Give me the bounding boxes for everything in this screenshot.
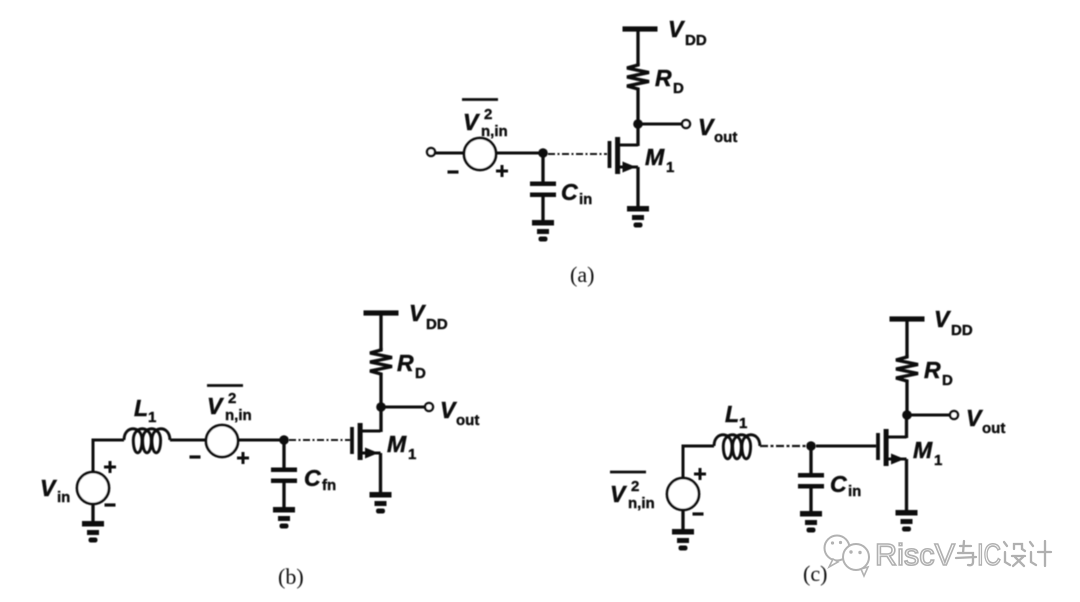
svg-text:C: C <box>830 471 847 497</box>
wire inductor to noise source (b) <box>170 439 207 442</box>
noise voltage source Vn,in^2 (c) <box>667 478 699 510</box>
terminal Vout (b) <box>425 403 433 411</box>
svg-text:DD: DD <box>685 32 707 49</box>
label RD (c) <box>924 357 953 389</box>
watermark glyph she <box>1004 542 1025 566</box>
wire node to Vout terminal (a) <box>641 123 681 126</box>
wire noise source to corner and inductor (c) <box>683 446 714 479</box>
label RD (b) <box>397 350 426 382</box>
wire VDD to resistor (b) <box>379 315 382 350</box>
caption (a) <box>570 262 594 287</box>
wire drain node to transistor (b) <box>379 407 382 432</box>
svg-text:out: out <box>456 412 479 429</box>
wire noise source to ground (c) <box>681 509 684 530</box>
wire Vin to ground (b) <box>91 503 94 522</box>
noise voltage source Vn,in^2 (a) <box>464 138 496 170</box>
svg-text:n,in: n,in <box>481 123 508 140</box>
wire Vin to corner and inductor (b) <box>93 440 124 473</box>
wire resistor to drain node (b) <box>379 375 382 407</box>
node drain (a) <box>633 119 643 129</box>
svg-text:L: L <box>134 395 148 421</box>
minus sign (a) <box>448 171 459 173</box>
ground at M1 source (b) <box>370 492 392 514</box>
label Vout (a) <box>698 114 737 146</box>
svg-text:2: 2 <box>484 106 492 123</box>
wire source to ground (a) <box>636 167 639 207</box>
ground at noise source (c) <box>672 529 694 551</box>
plus sign Vin (b) <box>104 461 116 473</box>
svg-text:1: 1 <box>934 452 942 469</box>
wire drain node to transistor (a) <box>636 124 639 146</box>
svg-text:V: V <box>207 393 224 419</box>
caption (c) <box>803 561 827 586</box>
wire resistor to drain node (a) <box>636 90 639 124</box>
ground at Cin (a) <box>532 220 554 242</box>
label Vin (b) <box>40 475 70 506</box>
terminal Vout (c) <box>950 411 958 419</box>
wire gate node to M1 gate (c) <box>816 445 876 448</box>
capacitor Cin (c) <box>798 473 824 489</box>
wire inductor to gate node (c) <box>760 445 806 447</box>
label L1 (b) <box>134 395 156 426</box>
watermark glyph ji <box>1030 541 1051 566</box>
svg-text:(b): (b) <box>278 564 304 589</box>
label Vout (b) <box>440 397 479 429</box>
wire gate node to capacitor (a) <box>541 153 544 182</box>
label M1 (b) <box>387 431 416 463</box>
plus sign (b) <box>237 452 249 464</box>
svg-text:M: M <box>387 431 407 457</box>
label M1 (a) <box>645 144 674 176</box>
svg-text:1: 1 <box>739 415 747 432</box>
svg-text:R: R <box>924 357 941 383</box>
label VDD (c) <box>934 306 973 339</box>
label VDD (b) <box>409 300 448 333</box>
svg-text:out: out <box>714 129 737 146</box>
inductor L1 (b) <box>124 429 170 453</box>
svg-text:2: 2 <box>631 478 639 495</box>
svg-text:M: M <box>913 437 933 463</box>
transistor M1 (a) <box>608 137 638 174</box>
svg-text:n,in: n,in <box>225 407 252 424</box>
ground at Cfn (b) <box>273 507 295 529</box>
label RD (a) <box>655 65 684 97</box>
label Cin (c) <box>830 471 861 500</box>
svg-text:V: V <box>610 481 627 507</box>
wire drain node to transistor (c) <box>905 415 908 438</box>
node gate (a) <box>538 148 548 158</box>
ground at Vin (b) <box>82 521 104 543</box>
label Vout (c) <box>966 405 1005 437</box>
resistor RD (a) <box>627 63 649 90</box>
plus sign (c) <box>694 468 706 480</box>
wire VDD to resistor (c) <box>905 321 908 356</box>
noise voltage source Vn,in^2 (b) <box>206 425 238 457</box>
source Vin (b) <box>77 472 109 504</box>
svg-text:out: out <box>982 420 1005 437</box>
capacitor Cfn (b) <box>271 468 297 484</box>
terminal Vout (a) <box>682 120 690 128</box>
svg-text:V: V <box>966 405 983 431</box>
svg-text:DD: DD <box>951 322 973 339</box>
wire node to Vout terminal (c) <box>910 414 950 417</box>
wire input terminal to noise source (a) <box>435 152 465 155</box>
label M1 (c) <box>913 437 942 469</box>
input terminal (a) <box>427 148 435 156</box>
label Vn,in^2 with overline (c) <box>610 472 655 512</box>
svg-text:fn: fn <box>322 477 336 494</box>
svg-text:V: V <box>934 306 951 332</box>
svg-text:M: M <box>645 144 665 170</box>
ground at M1 source (c) <box>896 510 918 532</box>
svg-text:RiscV: RiscV <box>875 537 955 572</box>
wire resistor to drain node (c) <box>905 382 908 415</box>
svg-text:in: in <box>848 483 861 500</box>
node drain (c) <box>902 410 912 420</box>
node drain (b) <box>376 402 386 412</box>
transistor M1 (c) <box>876 429 906 466</box>
svg-text:1: 1 <box>666 159 674 176</box>
svg-text:L: L <box>725 401 739 427</box>
wire source to ground (b) <box>379 453 382 493</box>
label Cin (a) <box>561 179 592 208</box>
wire source to ground (c) <box>905 459 908 511</box>
caption (b) <box>278 564 304 589</box>
svg-text:V: V <box>698 114 715 140</box>
svg-text:C: C <box>561 179 578 205</box>
label Vn,in^2 with overline (a) <box>462 100 508 141</box>
wire gate node to M1 gate (a) <box>548 153 607 155</box>
node gate (c) <box>806 441 816 451</box>
label VDD (a) <box>668 16 707 49</box>
svg-text:D: D <box>415 365 426 382</box>
svg-text:in: in <box>579 191 592 208</box>
VDD supply bar (a) <box>623 26 658 31</box>
minus sign (b) <box>190 456 201 458</box>
watermark text IC <box>977 537 1001 572</box>
wire capacitor to ground (a) <box>541 196 544 221</box>
wire gate node to capacitor (c) <box>809 446 812 474</box>
wire capacitor to ground (c) <box>809 488 812 512</box>
wire noise source to gate node (b) <box>238 439 284 442</box>
svg-text:V: V <box>440 397 457 423</box>
resistor RD (c) <box>896 355 918 382</box>
svg-text:C: C <box>304 465 321 491</box>
svg-text:in: in <box>57 489 70 506</box>
wire VDD to resistor (a) <box>636 31 639 65</box>
svg-text:(a): (a) <box>570 262 594 287</box>
watermark glyph yu <box>956 541 976 565</box>
node gate (b) <box>279 435 289 445</box>
svg-text:V: V <box>409 300 426 326</box>
inductor L1 (c) <box>714 435 760 459</box>
svg-text:(c): (c) <box>803 561 827 586</box>
svg-text:2: 2 <box>228 390 236 407</box>
wire gate node to capacitor (b) <box>282 440 285 469</box>
svg-text:R: R <box>655 65 672 91</box>
minus sign (c) <box>693 513 704 515</box>
watermark logo chat bubbles <box>825 536 870 577</box>
wire capacitor to ground (b) <box>282 482 285 508</box>
wire node to Vout terminal (b) <box>384 406 424 409</box>
transistor M1 (b) <box>350 423 380 460</box>
svg-text:R: R <box>397 350 414 376</box>
svg-text:D: D <box>942 372 953 389</box>
minus sign Vin (b) <box>105 504 116 506</box>
svg-text:1: 1 <box>148 409 156 426</box>
svg-text:1: 1 <box>408 446 416 463</box>
svg-text:V: V <box>463 109 480 135</box>
plus sign (a) <box>496 165 508 177</box>
svg-text:V: V <box>40 475 57 501</box>
VDD supply bar (b) <box>364 310 399 315</box>
wire noise source to gate node (a) <box>496 152 543 155</box>
capacitor Cin (a) <box>530 182 556 198</box>
ground at M1 source (a) <box>627 206 649 228</box>
resistor RD (b) <box>370 348 392 375</box>
VDD supply bar (c) <box>890 316 925 321</box>
svg-text:D: D <box>673 80 684 97</box>
svg-text:DD: DD <box>426 316 448 333</box>
label Vn,in^2 with overline (b) <box>207 386 252 425</box>
label Cfn (b) <box>304 465 336 494</box>
ground at Cin (c) <box>800 511 822 533</box>
svg-text:IC: IC <box>977 537 1001 572</box>
svg-text:n,in: n,in <box>628 495 655 512</box>
label L1 (c) <box>725 401 747 432</box>
wire gate node to M1 gate (b) <box>289 439 350 441</box>
svg-text:V: V <box>668 16 685 42</box>
watermark text RiscV <box>875 537 955 572</box>
